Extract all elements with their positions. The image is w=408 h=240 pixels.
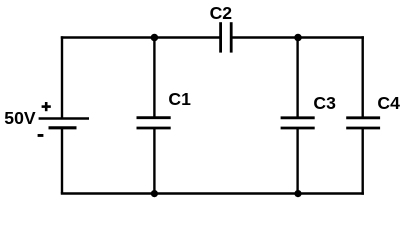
capacitor C4: bottom plate xyxy=(346,127,380,130)
wire: C1 branch top lead xyxy=(153,38,155,118)
svg-text:C3: C3 xyxy=(313,93,336,113)
wire: left vertical (battery top lead) xyxy=(61,36,63,118)
battery V1: negative plate (short) xyxy=(49,126,77,129)
wire: right vertical top (C4 top lead) xyxy=(362,36,364,118)
capacitor C2: left plate xyxy=(219,22,222,52)
capacitor C1: top plate xyxy=(137,116,171,119)
wire: left vertical (battery bottom lead) xyxy=(61,128,63,194)
svg-text:C4: C4 xyxy=(377,93,400,113)
wire: bottom horizontal xyxy=(61,192,364,194)
node: top junction of C1 branch xyxy=(151,34,159,42)
capacitor C3: top plate xyxy=(281,116,315,119)
battery V1: positive plate (long) xyxy=(39,117,89,120)
battery V1: minus terminal mark xyxy=(38,134,44,137)
node: bottom junction of C1 branch xyxy=(151,190,158,197)
wire: C3 branch top lead xyxy=(296,38,298,118)
node: bottom junction of C3 branch xyxy=(294,190,301,197)
node: top junction of C3 branch xyxy=(294,34,302,42)
svg-text:C2: C2 xyxy=(210,3,233,23)
wire: top horizontal right segment xyxy=(231,36,364,38)
svg-text:C1: C1 xyxy=(168,89,191,109)
capacitor C3: bottom plate xyxy=(281,127,315,130)
capacitor C2: right plate xyxy=(230,22,233,52)
wire: top horizontal left segment xyxy=(61,36,221,38)
capacitor C4: top plate xyxy=(346,116,380,119)
wire: C1 branch bottom lead xyxy=(153,128,155,194)
wire: C3 branch bottom lead xyxy=(296,128,298,194)
capacitor C1: bottom plate xyxy=(137,127,171,130)
wire: right vertical bottom (C4 bottom lead) xyxy=(362,128,364,195)
svg-text:50V: 50V xyxy=(4,108,36,128)
battery V1: plus terminal mark xyxy=(42,102,51,111)
